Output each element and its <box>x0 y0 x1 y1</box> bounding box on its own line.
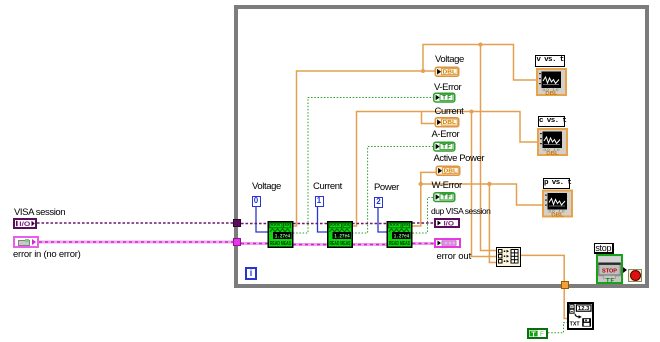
svg-text:F: F <box>540 331 544 338</box>
svg-text:I/O: I/O <box>444 220 455 227</box>
svg-text:STOP: STOP <box>602 268 617 274</box>
svg-text:12.3: 12.3 <box>578 306 590 312</box>
svg-text:T: T <box>531 329 536 338</box>
svg-text:F: F <box>611 277 615 283</box>
svg-text:TXT: TXT <box>570 322 581 328</box>
svg-text:I/O: I/O <box>19 221 30 228</box>
svg-text:T: T <box>606 277 610 283</box>
